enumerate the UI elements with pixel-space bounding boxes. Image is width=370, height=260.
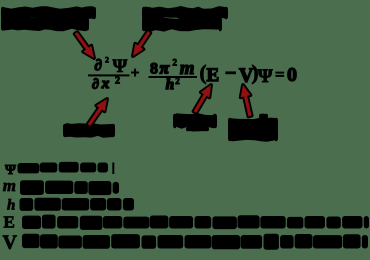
legend blob row m <box>20 180 44 195</box>
redacted label top-left (2 fused lines) <box>1 6 96 20</box>
svg-text:0: 0 <box>287 64 297 86</box>
svg-text:h: h <box>7 197 15 213</box>
svg-text:Ψ: Ψ <box>113 56 128 77</box>
svg-text:x: x <box>101 76 110 92</box>
cursor bar after psi row <box>112 163 114 175</box>
red arrow: annotation1 to dx2 <box>88 99 107 126</box>
svg-text:E: E <box>4 213 15 232</box>
legend blob row V <box>22 234 40 248</box>
redacted annotation blob under V <box>228 118 278 142</box>
svg-text:8: 8 <box>150 61 158 78</box>
svg-text:m: m <box>180 58 195 79</box>
svg-text:(: ( <box>200 61 207 85</box>
svg-text:E: E <box>207 65 220 86</box>
redacted annotation blob under dx2 <box>63 123 115 138</box>
svg-text:2: 2 <box>105 56 109 65</box>
svg-text:Ψ: Ψ <box>258 66 273 87</box>
svg-text:V: V <box>3 232 18 254</box>
legend blob row E <box>22 216 41 229</box>
svg-text:m: m <box>3 176 16 195</box>
legend blob row h <box>20 198 34 211</box>
svg-text:=: = <box>275 65 285 84</box>
red arrow: top-center label to plus area <box>133 31 150 56</box>
svg-text:∂: ∂ <box>95 58 102 74</box>
red arrow: top-left label to d2psi term <box>75 32 94 58</box>
redacted annotation blob under E <box>173 113 217 129</box>
redacted label top-center (2 fused lines) <box>142 6 228 20</box>
red arrow: annotation2 to E <box>194 85 211 113</box>
legend blob row psi <box>18 163 40 173</box>
svg-text:+: + <box>131 66 140 82</box>
svg-text:h: h <box>166 77 174 93</box>
svg-text:−: − <box>225 63 236 85</box>
svg-text:2: 2 <box>173 57 178 67</box>
fraction bar 2 <box>149 76 198 78</box>
red arrow: annotation3 to V <box>241 85 252 116</box>
svg-text:∂: ∂ <box>92 77 99 92</box>
svg-text:2: 2 <box>115 75 120 86</box>
fraction bar 1 <box>88 74 130 76</box>
svg-text:π: π <box>160 59 170 78</box>
